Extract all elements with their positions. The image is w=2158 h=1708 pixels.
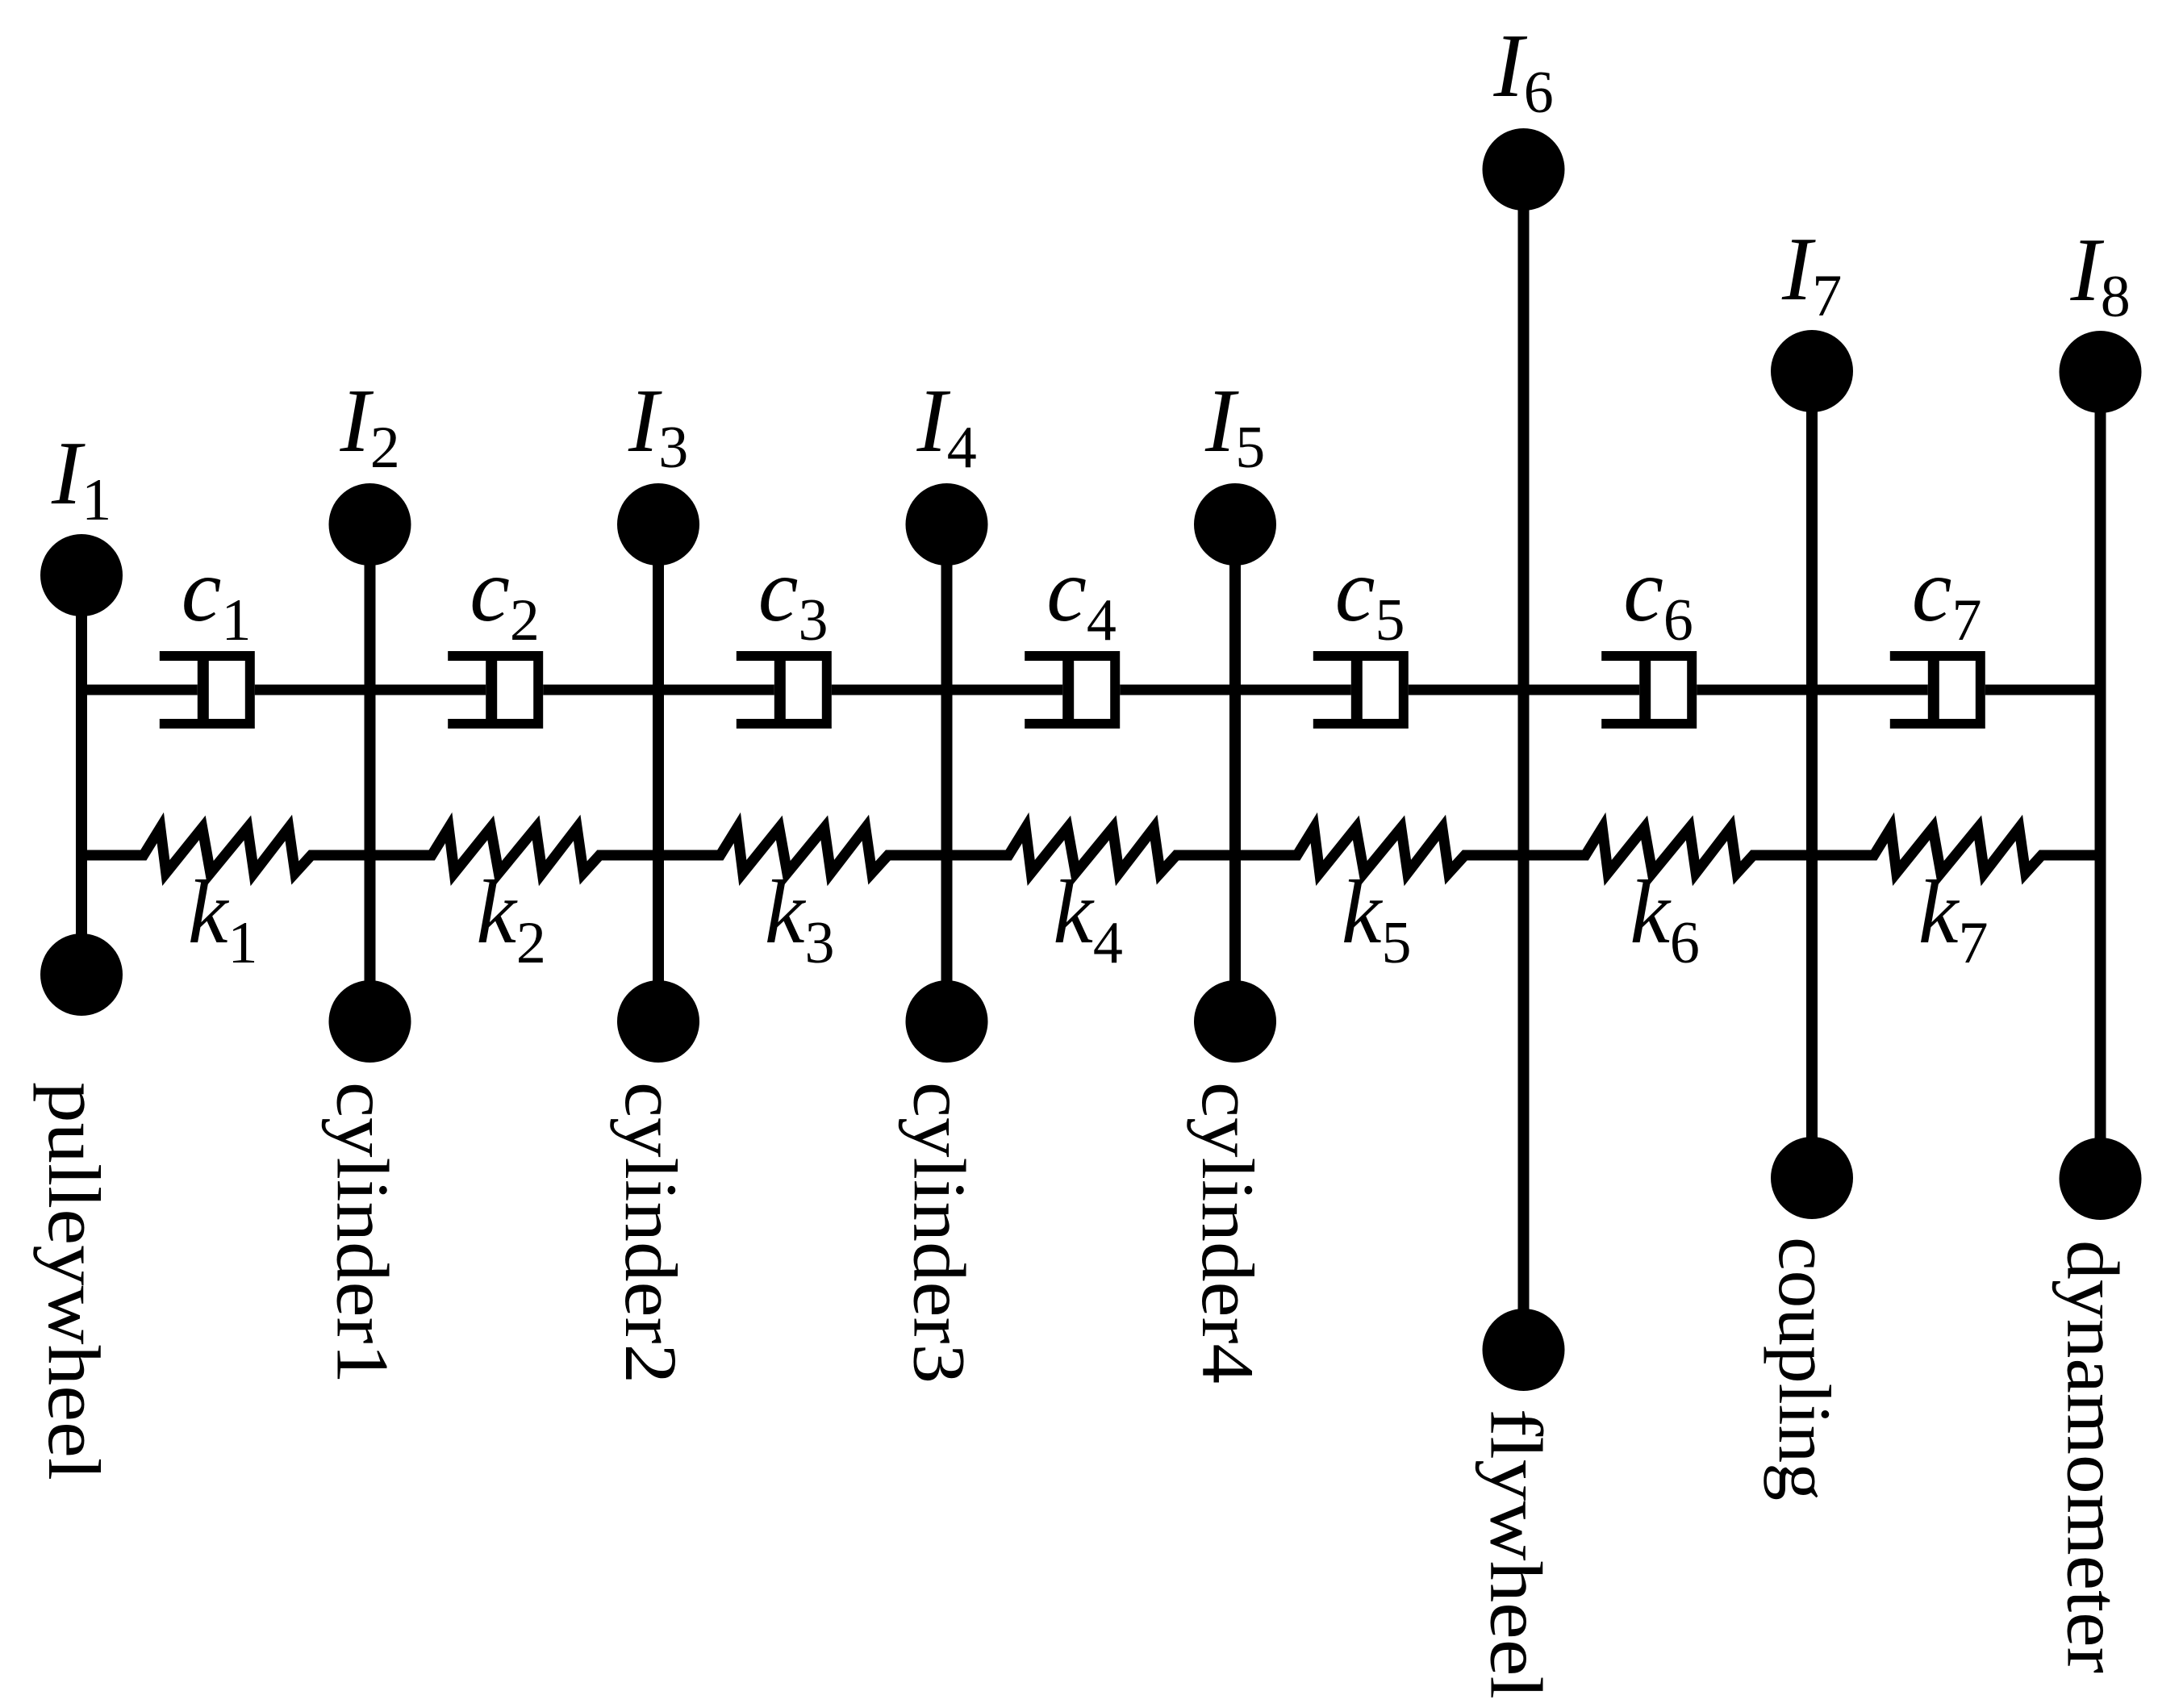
damper c1 piston plate [198,651,209,729]
inertia I7 bottom mass circle [1771,1137,1853,1219]
wire: damper line right segment between damper c2 and I3 [543,685,658,695]
spring k3 with connecting wires [658,828,947,873]
inertia I5 bottom mass circle [1194,980,1276,1063]
inertia shaft I2 vertical line (cylinder1) [365,524,376,1021]
spring k6 with connecting wires [1524,828,1813,873]
damper c6 cylinder cup [1601,656,1692,724]
inertia I1 bottom mass circle [40,933,123,1016]
damper c3 cylinder cup [737,656,827,724]
inertia I1 top mass circle [40,534,123,616]
spring k4 with connecting wires [947,828,1236,873]
inertia I6 top mass circle [1483,128,1565,211]
wire: damper line right segment between damper c6 and I7 [1697,685,1812,695]
wire: damper line left segment between I2 and damper c2 [370,685,486,695]
damper c3 piston plate [774,651,786,729]
inertia I2 top mass circle [329,483,411,566]
wire: damper line right segment between damper c5 and I6 [1409,685,1524,695]
wire: damper line left segment between I1 and damper c1 [81,685,198,695]
inertia I4 top mass circle [906,483,988,566]
svg-text:cylinder4: cylinder4 [1187,1082,1269,1384]
wire: damper line right segment between damper c3 and I4 [832,685,947,695]
damper c7 piston plate [1928,651,1939,729]
inertia I5 top mass circle [1194,483,1276,566]
inertia I7 top mass circle [1771,330,1853,412]
svg-text:pulleywheel: pulleywheel [33,1082,115,1480]
wire: damper line right segment between damper c4 and I5 [1120,685,1235,695]
inertia I3 top mass circle [617,483,699,566]
wire: damper line right segment between damper c7 and I8 [1985,685,2101,695]
damper c1 cylinder cup [160,656,250,724]
inertia shaft I5 vertical line (cylinder4) [1229,524,1241,1021]
inertia I3 bottom mass circle [617,980,699,1063]
wire: damper line right segment between damper c1 and I2 [255,685,370,695]
inertia shaft I7 vertical line (coupling) [1806,371,1818,1178]
damper c2 cylinder cup [448,656,538,724]
inertia shaft I3 vertical line (cylinder2) [653,524,664,1021]
inertia shaft I1 vertical line (pulleywheel) [76,575,87,975]
svg-text:cylinder2: cylinder2 [610,1082,692,1384]
damper c6 piston plate [1639,651,1651,729]
inertia I6 bottom mass circle [1483,1309,1565,1391]
inertia shaft I6 vertical line (flywheel) [1518,169,1530,1350]
wire: damper line left segment between I3 and damper c3 [658,685,774,695]
svg-text:cylinder3: cylinder3 [899,1082,981,1384]
svg-text:dynamometer: dynamometer [2052,1240,2135,1673]
damper c7 cylinder cup [1890,656,1981,724]
svg-text:cylinder1: cylinder1 [322,1082,404,1384]
spring k2 with connecting wires [370,828,659,873]
spring k1 with connecting wires [81,828,370,873]
wire: damper line left segment between I6 and damper c6 [1524,685,1640,695]
inertia shaft I4 vertical line (cylinder3) [941,524,953,1021]
damper c5 piston plate [1351,651,1363,729]
damper c4 piston plate [1062,651,1074,729]
inertia I8 bottom mass circle [2060,1138,2142,1220]
inertia shaft I8 vertical line (dynamometer) [2095,372,2106,1179]
spring k5 with connecting wires [1235,828,1524,873]
inertia I4 bottom mass circle [906,980,988,1063]
svg-text:coupling: coupling [1764,1237,1846,1501]
damper c5 cylinder cup [1313,656,1404,724]
damper c2 piston plate [486,651,497,729]
wire: damper line left segment between I5 and damper c5 [1235,685,1351,695]
svg-text:flywheel: flywheel [1476,1409,1558,1699]
wire: damper line left segment between I4 and damper c4 [947,685,1063,695]
wire: damper line left segment between I7 and damper c7 [1812,685,1928,695]
inertia I8 top mass circle [2060,331,2142,413]
spring k7 with connecting wires [1812,828,2101,873]
damper c4 cylinder cup [1025,656,1115,724]
inertia I2 bottom mass circle [329,980,411,1063]
